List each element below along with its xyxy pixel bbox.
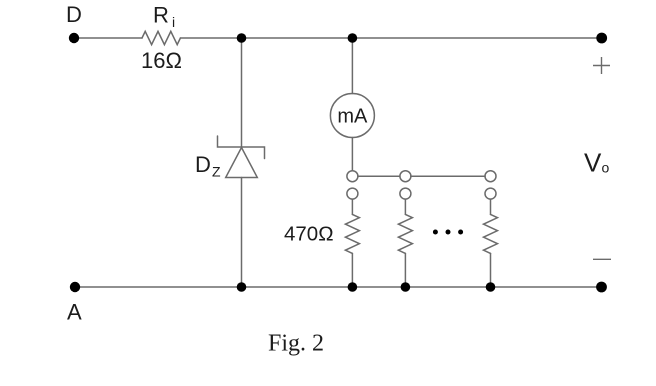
svg-text:16Ω: 16Ω xyxy=(141,48,182,73)
jack J2 lower circle xyxy=(400,188,411,199)
junction node C top xyxy=(348,33,358,43)
terminal - dot xyxy=(596,282,607,293)
svg-text:Z: Z xyxy=(212,164,221,180)
wire ammeter top xyxy=(351,38,353,94)
wire ammeter bottom xyxy=(351,138,353,171)
junction R3 bottom xyxy=(401,282,411,292)
wire zener top xyxy=(241,38,243,147)
resistor R3 xyxy=(398,214,412,253)
wire jack1 to resistor xyxy=(351,199,353,214)
wire top (node C to + terminal) xyxy=(352,37,601,39)
zener diode DZ cathode bar xyxy=(218,136,265,159)
resistor R2 (470Ω) xyxy=(345,214,359,253)
junction zener bottom xyxy=(237,282,247,292)
ellipsis dot 2 xyxy=(446,230,451,235)
resistor R1 (Ri 16Ω) xyxy=(142,31,180,44)
wire bottom bus xyxy=(75,286,602,288)
junction node B top xyxy=(237,33,247,43)
jack J1 lower circle xyxy=(347,188,358,199)
wire top-left (D to Ri) xyxy=(74,37,142,39)
svg-text:mA: mA xyxy=(337,106,368,128)
svg-text:470Ω: 470Ω xyxy=(284,223,334,246)
junction R2 bottom xyxy=(348,282,358,292)
resistor R4 xyxy=(484,214,498,253)
ellipsis dot 3 xyxy=(458,230,463,235)
node D terminal dot xyxy=(69,33,79,43)
wire top (node B to node C) xyxy=(242,37,353,39)
svg-text:i: i xyxy=(172,14,175,30)
node A terminal dot xyxy=(70,282,80,292)
wire top (Ri to node B) xyxy=(180,37,241,39)
wire bus J1-J2 xyxy=(358,175,400,177)
svg-text:D: D xyxy=(66,2,82,27)
wire jack2 to resistor xyxy=(404,199,406,214)
plus sign xyxy=(593,65,610,67)
svg-text:A: A xyxy=(67,300,82,325)
wire zener bottom xyxy=(241,178,243,288)
wire jack3 to resistor xyxy=(490,199,492,214)
junction R4 bottom xyxy=(486,282,496,292)
terminal + dot xyxy=(596,33,607,44)
svg-text:V: V xyxy=(584,148,602,178)
wire bus J2-J3 xyxy=(411,175,485,177)
wire resistor R3 bottom xyxy=(404,253,406,287)
svg-text:D: D xyxy=(195,152,211,177)
minus sign xyxy=(593,258,611,260)
jack J3 top circle xyxy=(485,171,496,182)
jack J2 top circle xyxy=(400,171,411,182)
svg-text:R: R xyxy=(153,3,169,28)
svg-text:o: o xyxy=(602,160,610,176)
zener diode DZ triangle xyxy=(226,148,258,178)
wire resistor R2 bottom xyxy=(351,253,353,287)
ellipsis dot 1 xyxy=(433,230,438,235)
ammeter U1 circle xyxy=(330,94,374,138)
jack J1 top circle xyxy=(347,171,358,182)
jack J3 lower circle xyxy=(485,188,496,199)
wire resistor R4 bottom xyxy=(490,253,492,287)
svg-text:Fig. 2: Fig. 2 xyxy=(268,331,324,357)
